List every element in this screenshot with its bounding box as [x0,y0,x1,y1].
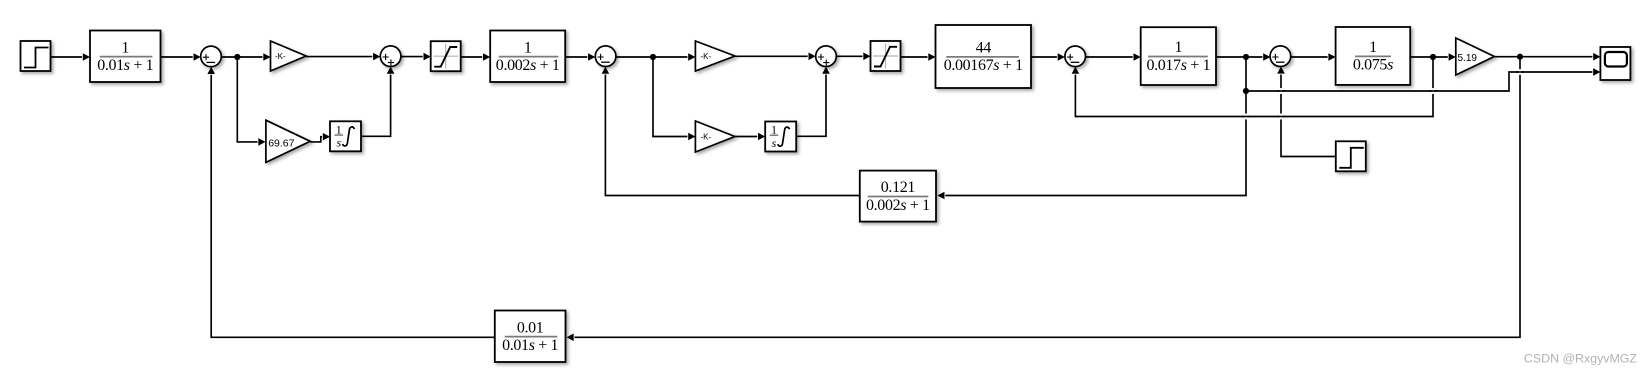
sum junction SumA (+,-) [201,46,222,67]
svg-text:1: 1 [121,39,129,56]
wire SumA to Gain1 with node A [221,53,270,61]
svg-text:5.19: 5.19 [1458,53,1478,64]
wire Saturation2 to 44/(0.00167s+1) [901,53,936,61]
transfer function 1/(0.002s+1) [490,31,565,83]
svg-text:s: s [772,136,777,150]
svg-text:1: 1 [336,122,342,136]
transfer function 1/(0.01s+1) [90,31,161,83]
wire 1/(0.075s) to Gain5 with node D [1410,53,1456,61]
svg-text:0.00167s + 1: 0.00167s + 1 [944,57,1023,74]
gain -K- (Gain4) [695,121,735,152]
svg-text:-K-: -K- [275,52,286,61]
wire node A down to Gain2 [237,57,265,146]
svg-text:1: 1 [1175,39,1183,56]
svg-text:CSDN @RxgyvMGZ: CSDN @RxgyvMGZ [1524,351,1638,365]
wire crossing hops [1242,69,1523,119]
svg-text:44: 44 [976,40,992,57]
svg-text:0.121: 0.121 [881,179,916,196]
wire SumB to Saturation1 [401,53,431,61]
wire Step to 1/(0.01s+1) [51,53,91,61]
gain 5.19 (Gain5) [1456,38,1495,75]
wire 1/(0.01s+1) to SumA [161,53,201,61]
wire SumC to Gain3 with node B [616,53,696,61]
svg-text:0.075s: 0.075s [1353,57,1393,74]
scope block Scope [1600,47,1630,80]
wire node E down to 0.01 block input [567,57,1521,341]
svg-text:-K-: -K- [701,52,712,61]
wire Gain1 to SumB [306,53,380,61]
svg-text:1: 1 [524,39,532,56]
integrator 1/s (Integrator1) [330,121,361,151]
svg-text:0.01s + 1: 0.01s + 1 [502,337,558,354]
wire node C branch to Scope input 2 [1246,68,1600,91]
svg-text:0.002s + 1: 0.002s + 1 [496,57,560,74]
wire Step1 to SumF bottom [1277,66,1336,156]
wire node D feedback to SumE bottom [1072,57,1433,117]
svg-text:1: 1 [1369,39,1377,56]
wire Saturation1 to 1/(0.002s+1) [461,53,490,61]
wire SumD to Saturation2 [836,53,870,61]
sum junction SumB (+,+) [380,46,401,67]
wire SumE to 1/(0.017s+1) [1086,53,1141,61]
sum junction SumD (+,+) [816,46,837,67]
wire 1/(0.017s+1) to SumF with node C [1216,53,1270,61]
saturation block Saturation1 [431,41,461,71]
integrator 1/s (Integrator2) [765,122,796,152]
svg-text:s: s [336,136,341,150]
svg-text:69.67: 69.67 [268,137,294,149]
wire 0.121 block to SumC bottom [602,67,860,196]
svg-text:0.017s + 1: 0.017s + 1 [1146,57,1210,74]
step source block Step [21,41,51,71]
watermark CSDN @RxgyvMGZ [1524,351,1638,365]
svg-text:0.002s + 1: 0.002s + 1 [866,197,930,214]
wire node B down to Gain4 [653,57,695,140]
svg-text:-K-: -K- [701,133,712,142]
wire node C down to 0.121 block input [937,57,1249,199]
sum junction SumF (+,-) [1270,46,1291,67]
sum junction SumE (+,-) [1065,46,1086,67]
transfer function 1/(0.017s+1) [1141,27,1216,85]
saturation block Saturation2 [871,41,901,71]
wire Integrator1 to SumB bottom [361,67,394,137]
gain -K- (Gain3) [695,41,735,71]
svg-text:1: 1 [771,123,777,137]
transfer function 0.01/(0.01s+1) [495,311,566,363]
wire 0.01 block to SumA bottom [207,67,494,338]
transfer function 44/(0.00167s+1) [936,25,1032,88]
svg-text:0.01: 0.01 [517,319,544,336]
gain -K- (Gain1) [271,41,307,71]
wire 1/(0.002s+1) to SumC [565,53,595,61]
wire Gain4 to Integrator2 [735,133,765,141]
wire Gain5 to Scope input 1 with node E [1494,53,1600,61]
wire Integrator2 to SumD bottom [796,67,830,137]
svg-text:0.01s + 1: 0.01s + 1 [97,57,153,74]
wire Gain2 to Integrator1 with jog [310,133,330,142]
sum junction SumC (+,-) [595,46,616,67]
gain 69.67 (Gain2) [266,120,310,162]
step source Step1 (flipped) [1336,141,1366,171]
wire SumF to 1/(0.075s) [1291,53,1336,61]
wire Gain3 to SumD [735,53,816,61]
wire 44/(0.00167s+1) to SumE [1031,53,1065,61]
transfer function 0.121/(0.002s+1) [860,171,936,222]
transfer function 1/(0.075s) [1336,27,1411,85]
